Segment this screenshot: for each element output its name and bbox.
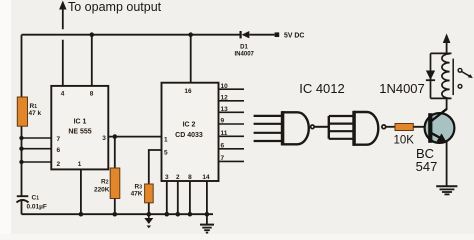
transistor collector xyxy=(432,109,447,121)
node junction pin6 xyxy=(19,147,23,151)
svg-text:5V DC: 5V DC xyxy=(284,33,304,40)
capacitor C1 xyxy=(17,195,29,197)
node junction R2/rail xyxy=(113,212,118,217)
wire U3A output to U3B inputs xyxy=(314,126,328,128)
NAND gate U3B body xyxy=(355,112,379,145)
svg-text:4: 4 xyxy=(61,90,65,97)
NAND gate U3A output bubble xyxy=(311,125,315,129)
diode D1 1N4007 on 5V rail xyxy=(240,31,242,38)
wire D1 to 5V terminal xyxy=(249,34,274,36)
wire pin10 stub xyxy=(219,88,245,90)
svg-text:8: 8 xyxy=(90,90,94,97)
relay coil xyxy=(442,54,450,99)
wire emitter to ground xyxy=(446,140,448,186)
svg-text:NE 555: NE 555 xyxy=(68,129,91,136)
transistor Q1 BC547 xyxy=(425,113,455,143)
node 5V DC terminal xyxy=(275,32,280,37)
wire pin1 to ground rail xyxy=(80,169,82,214)
svg-text:10K: 10K xyxy=(394,135,415,147)
wire left vertical (Vcc to R1, pins 7/6/2 node, C1, ground rail) xyxy=(21,35,23,215)
NAND gate U3A inputs xyxy=(254,116,281,141)
svg-text:2: 2 xyxy=(57,161,61,168)
wire pin3 to IC2 pin1 xyxy=(108,136,161,138)
NAND gate U3B output bubble xyxy=(382,125,386,129)
wire pin8 to rail xyxy=(91,35,93,86)
wire pin13 stub xyxy=(219,111,245,113)
wire pin11 stub xyxy=(219,135,245,137)
node arrow head to opamp xyxy=(59,1,66,10)
svg-text:5: 5 xyxy=(164,150,168,157)
relay K1: supply arrow xyxy=(446,42,448,53)
wire collector to relay xyxy=(446,98,448,110)
svg-text:47K: 47K xyxy=(131,191,143,198)
wire R3 to ground rail xyxy=(148,203,150,214)
wire pin16 to rail xyxy=(190,35,192,83)
wire pin14 bottom to ground xyxy=(206,181,208,224)
node junction pin2 xyxy=(19,160,23,164)
wire pin9 stub xyxy=(219,123,245,125)
wire top rail xyxy=(22,34,240,36)
svg-text:1: 1 xyxy=(78,161,82,168)
node junction pin7 xyxy=(19,136,23,140)
svg-text:To opamp output: To opamp output xyxy=(68,0,162,14)
node junction pin2/rail xyxy=(176,212,181,217)
wire bottom ground rail xyxy=(22,213,214,215)
NAND gate U3A body xyxy=(283,112,309,144)
wire pin3 bottom to rail xyxy=(166,181,168,214)
svg-text:547: 547 xyxy=(416,159,438,174)
svg-text:3: 3 xyxy=(102,135,106,142)
svg-text:R3: R3 xyxy=(135,184,143,191)
wire pin7 stub xyxy=(22,137,52,139)
wire junction down to R2 xyxy=(114,137,116,168)
relay box left xyxy=(430,53,432,98)
wire R2 to ground rail xyxy=(114,199,116,215)
svg-text:8: 8 xyxy=(188,174,192,181)
IC U2 box IC 2 CD 4033 xyxy=(162,83,219,181)
wire pin12 stub xyxy=(219,100,245,102)
relay box bottom xyxy=(431,97,452,99)
transistor base bar xyxy=(428,113,432,143)
ground symbol under pin 14 xyxy=(200,225,214,233)
svg-text:16: 16 xyxy=(184,88,192,95)
svg-text:CD 4033: CD 4033 xyxy=(175,132,203,139)
ground symbol under emitter xyxy=(436,186,457,194)
svg-text:1N4007: 1N4007 xyxy=(379,81,425,96)
relay core bar xyxy=(452,59,454,96)
relay switch lever xyxy=(462,72,472,78)
ground arrow below R3 xyxy=(148,214,150,219)
svg-text:7: 7 xyxy=(57,136,61,143)
svg-text:IC 1: IC 1 xyxy=(74,119,87,126)
svg-text:3: 3 xyxy=(165,174,169,181)
node junction pin3/R2 xyxy=(113,134,118,139)
relay switch common contact xyxy=(458,68,462,72)
op-amp U1 box IC 1 NE 555 xyxy=(51,86,108,169)
wire pin6 stub xyxy=(219,148,245,150)
node junction R3/rail xyxy=(147,212,152,217)
wire pin2 stub xyxy=(22,161,52,163)
resistor R2 xyxy=(110,168,120,199)
wire IC2 pin5 to R3 xyxy=(149,150,162,184)
diode 1N4007 freewheel xyxy=(426,71,435,81)
node pin8 junction on top rail xyxy=(90,32,95,37)
node junction pin8/rail xyxy=(188,212,193,217)
svg-text:0.01µF: 0.01µF xyxy=(27,204,47,211)
wire pin8 bottom to rail xyxy=(189,181,191,214)
svg-text:D1: D1 xyxy=(240,45,248,51)
node pin16 junction on top rail xyxy=(188,32,193,37)
svg-text:1: 1 xyxy=(164,137,168,144)
wire pin2 bottom to rail xyxy=(177,181,179,214)
svg-text:R1: R1 xyxy=(30,103,38,110)
wire to opamp output arrow line xyxy=(62,9,64,86)
svg-text:IC 2: IC 2 xyxy=(183,122,196,129)
node junction pin1/rail xyxy=(79,212,84,217)
svg-text:IN4007: IN4007 xyxy=(235,52,255,58)
node junction pin3/rail xyxy=(165,212,170,217)
svg-text:R2: R2 xyxy=(101,179,109,186)
relay switch NO contact xyxy=(458,84,462,88)
svg-text:220K: 220K xyxy=(94,187,110,194)
node junction pin14/rail xyxy=(205,212,210,217)
transistor emitter with arrow xyxy=(432,133,442,138)
svg-text:IC 4012: IC 4012 xyxy=(299,81,345,96)
resistor R1 xyxy=(17,97,27,126)
resistor 10K xyxy=(395,124,413,131)
wire 10K to base xyxy=(413,126,431,128)
resistor R3 xyxy=(145,184,154,203)
wire pin7 stub xyxy=(219,160,245,162)
wire U3B output to 10K xyxy=(386,126,395,128)
svg-text:47 k: 47 k xyxy=(29,110,42,117)
svg-text:6: 6 xyxy=(57,147,61,154)
NAND gate U3B input ladder xyxy=(328,116,330,139)
svg-text:C1: C1 xyxy=(32,195,40,202)
relay box top xyxy=(431,52,452,54)
wire pin6 stub xyxy=(22,148,52,150)
svg-text:14: 14 xyxy=(202,174,210,181)
svg-text:2: 2 xyxy=(176,174,180,181)
